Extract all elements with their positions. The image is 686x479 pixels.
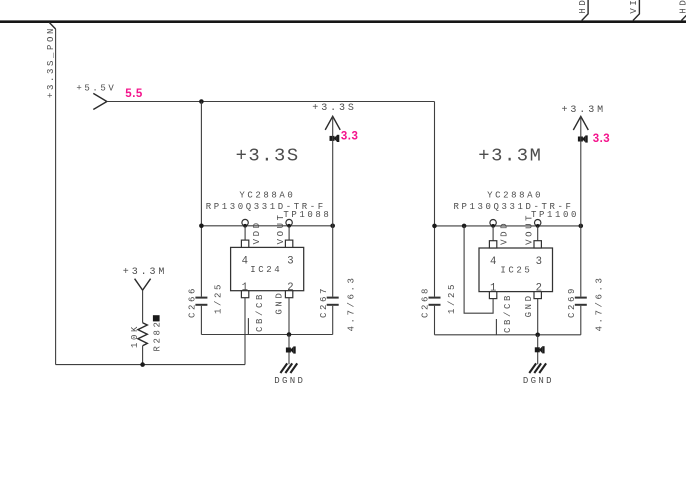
svg-text:+3.3M: +3.3M xyxy=(478,145,542,167)
capacitor C269 xyxy=(575,297,587,299)
svg-text:4: 4 xyxy=(242,256,248,268)
pin stub 1 IC25 xyxy=(489,292,496,299)
svg-text:GND: GND xyxy=(274,291,284,315)
svg-text:VOUT: VOUT xyxy=(525,213,535,245)
pin stub VDD IC25 xyxy=(489,241,496,248)
wire +3.3S_PON vertical rail xyxy=(55,29,57,365)
wire IC24 GND to DGND xyxy=(288,335,290,365)
svg-text:+3.3S_PON: +3.3S_PON xyxy=(46,26,56,98)
svg-text:DGND: DGND xyxy=(274,376,305,386)
op IC25 body xyxy=(479,248,553,292)
svg-text:3: 3 xyxy=(287,256,293,268)
svg-text:IC24: IC24 xyxy=(250,265,282,275)
svg-text:HD: HD xyxy=(679,0,686,14)
wire +3.3S rail (lower) xyxy=(332,306,334,335)
probe marker (+3.3S) xyxy=(330,135,340,142)
pin stub 2 IC24 xyxy=(285,291,292,298)
svg-text:1/25: 1/25 xyxy=(214,282,224,314)
test point circle (IC25 VDD) xyxy=(490,220,496,226)
variant marker (black square) xyxy=(153,315,160,321)
junction dot IC24 GND xyxy=(287,332,292,337)
svg-text:+3.3S: +3.3S xyxy=(312,103,357,114)
svg-text:GND: GND xyxy=(524,293,534,317)
wire IC24 bottom net xyxy=(201,334,332,336)
bus entry +3.3S_PON xyxy=(49,22,55,29)
junction dot IC25 CB riser xyxy=(462,224,467,229)
junction dot IC25 GND xyxy=(535,333,540,338)
wire IC24 pin1 riser xyxy=(244,298,246,365)
svg-text:YC288A0: YC288A0 xyxy=(487,191,543,201)
svg-text:C266: C266 xyxy=(188,286,198,318)
junction dot IC25 top-left xyxy=(432,224,437,229)
power bus (top) xyxy=(0,20,686,23)
wire IC25 pin1 to CB riser xyxy=(464,226,493,313)
wire IC24 top net xyxy=(201,225,332,227)
svg-text:4.7/6.3: 4.7/6.3 xyxy=(347,275,357,331)
svg-text:3.3: 3.3 xyxy=(341,130,359,142)
svg-text:10K: 10K xyxy=(130,324,140,348)
wire R282 top xyxy=(142,290,144,323)
wire +3.3S rail (upper) xyxy=(332,116,334,296)
bus entry tap HD (3) xyxy=(681,0,686,21)
svg-text:TP1088: TP1088 xyxy=(283,210,331,220)
svg-text:+3.3S: +3.3S xyxy=(236,145,300,167)
wire +5.5V drop to IC25 xyxy=(434,102,436,297)
junction dot +5.5V / IC24 branch xyxy=(199,99,204,104)
bus entry tap VI (2) xyxy=(633,0,639,21)
svg-text:3.3: 3.3 xyxy=(593,133,611,145)
wire +3.3S_PON bottom run xyxy=(56,364,245,366)
resistor R282 xyxy=(138,323,147,346)
test point circle TP1100 (IC25 VOUT) xyxy=(535,220,541,226)
svg-text:5.5: 5.5 xyxy=(125,88,143,100)
test point circle (IC24 VDD) xyxy=(242,219,248,225)
op IC24 body xyxy=(231,247,304,290)
svg-text:CB/CB: CB/CB xyxy=(503,293,513,333)
svg-text:YC288A0: YC288A0 xyxy=(239,191,295,201)
svg-text:+5.5V: +5.5V xyxy=(76,83,116,93)
svg-text:+3.3M: +3.3M xyxy=(562,105,607,116)
svg-text:HD: HD xyxy=(578,0,588,14)
power symbol +3.3S arrow xyxy=(325,116,340,130)
svg-text:3: 3 xyxy=(536,256,542,268)
pin stub VOUT IC25 xyxy=(534,241,541,248)
svg-text:C267: C267 xyxy=(319,286,329,318)
pin stub 2 IC25 xyxy=(534,292,541,299)
wire IC24 VDD rail (lower) xyxy=(200,306,202,335)
wire IC24 GND pin xyxy=(288,298,290,335)
svg-text:C269: C269 xyxy=(567,286,577,318)
svg-text:VOUT: VOUT xyxy=(276,212,286,244)
svg-text:VDD: VDD xyxy=(500,221,510,245)
wire IC25 GND to DGND xyxy=(537,335,539,365)
capacitor C268 xyxy=(429,297,441,299)
wire +5.5V horizontal xyxy=(107,101,435,103)
svg-text:4: 4 xyxy=(490,256,496,268)
wire IC25 VDD rail (lower) xyxy=(434,306,436,335)
svg-text:R282: R282 xyxy=(153,319,163,351)
probe marker (+3.3M) xyxy=(578,135,588,142)
capacitor C266 xyxy=(195,297,207,299)
svg-text:+3.3M: +3.3M xyxy=(123,267,168,278)
ground DGND (IC24) xyxy=(280,363,297,373)
svg-text:VDD: VDD xyxy=(252,220,262,244)
junction dot R282 bottom xyxy=(140,362,145,367)
wire +3.3M rail (lower) xyxy=(580,306,582,335)
wire R282 bottom xyxy=(142,346,144,365)
wire +3.3M rail (upper) xyxy=(580,116,582,296)
ground DGND (IC25) xyxy=(529,363,546,373)
power symbol +5.5V arrow xyxy=(93,93,107,109)
svg-text:1/25: 1/25 xyxy=(447,282,457,314)
pin stub VOUT IC24 xyxy=(285,240,292,247)
svg-text:4.7/6.3: 4.7/6.3 xyxy=(595,275,605,331)
junction dot IC25 top-right xyxy=(579,224,584,229)
probe marker (IC25 DGND) xyxy=(535,346,545,353)
svg-text:TP1100: TP1100 xyxy=(531,210,579,220)
svg-text:CB/CB: CB/CB xyxy=(255,292,265,332)
test point circle TP1088 (IC24 VOUT) xyxy=(286,219,292,225)
power symbol +3.3M arrow xyxy=(573,116,588,130)
wire IC25 bottom net xyxy=(435,334,581,336)
svg-text:DGND: DGND xyxy=(523,376,554,386)
wire IC25 GND pin xyxy=(537,299,539,335)
svg-text:C268: C268 xyxy=(421,286,431,318)
svg-text:IC25: IC25 xyxy=(500,265,532,275)
stub near IC24 pin1 xyxy=(247,318,249,334)
junction dot IC24 top-right xyxy=(330,224,335,229)
pin stub VDD IC24 xyxy=(241,240,248,247)
probe marker (IC24 DGND) xyxy=(286,346,296,353)
junction dot IC24 top-left xyxy=(199,224,204,229)
power symbol +3.3M (R282) xyxy=(135,279,151,291)
bus entry tap HD (1) xyxy=(582,0,588,21)
stub near IC25 pin1 xyxy=(495,319,497,335)
svg-text:VI: VI xyxy=(629,0,639,14)
wire IC24 VDD rail (upper) xyxy=(200,102,202,297)
wire IC25 top net xyxy=(435,225,581,227)
pin stub 1 IC24 xyxy=(241,291,248,298)
capacitor C267 xyxy=(327,297,339,299)
